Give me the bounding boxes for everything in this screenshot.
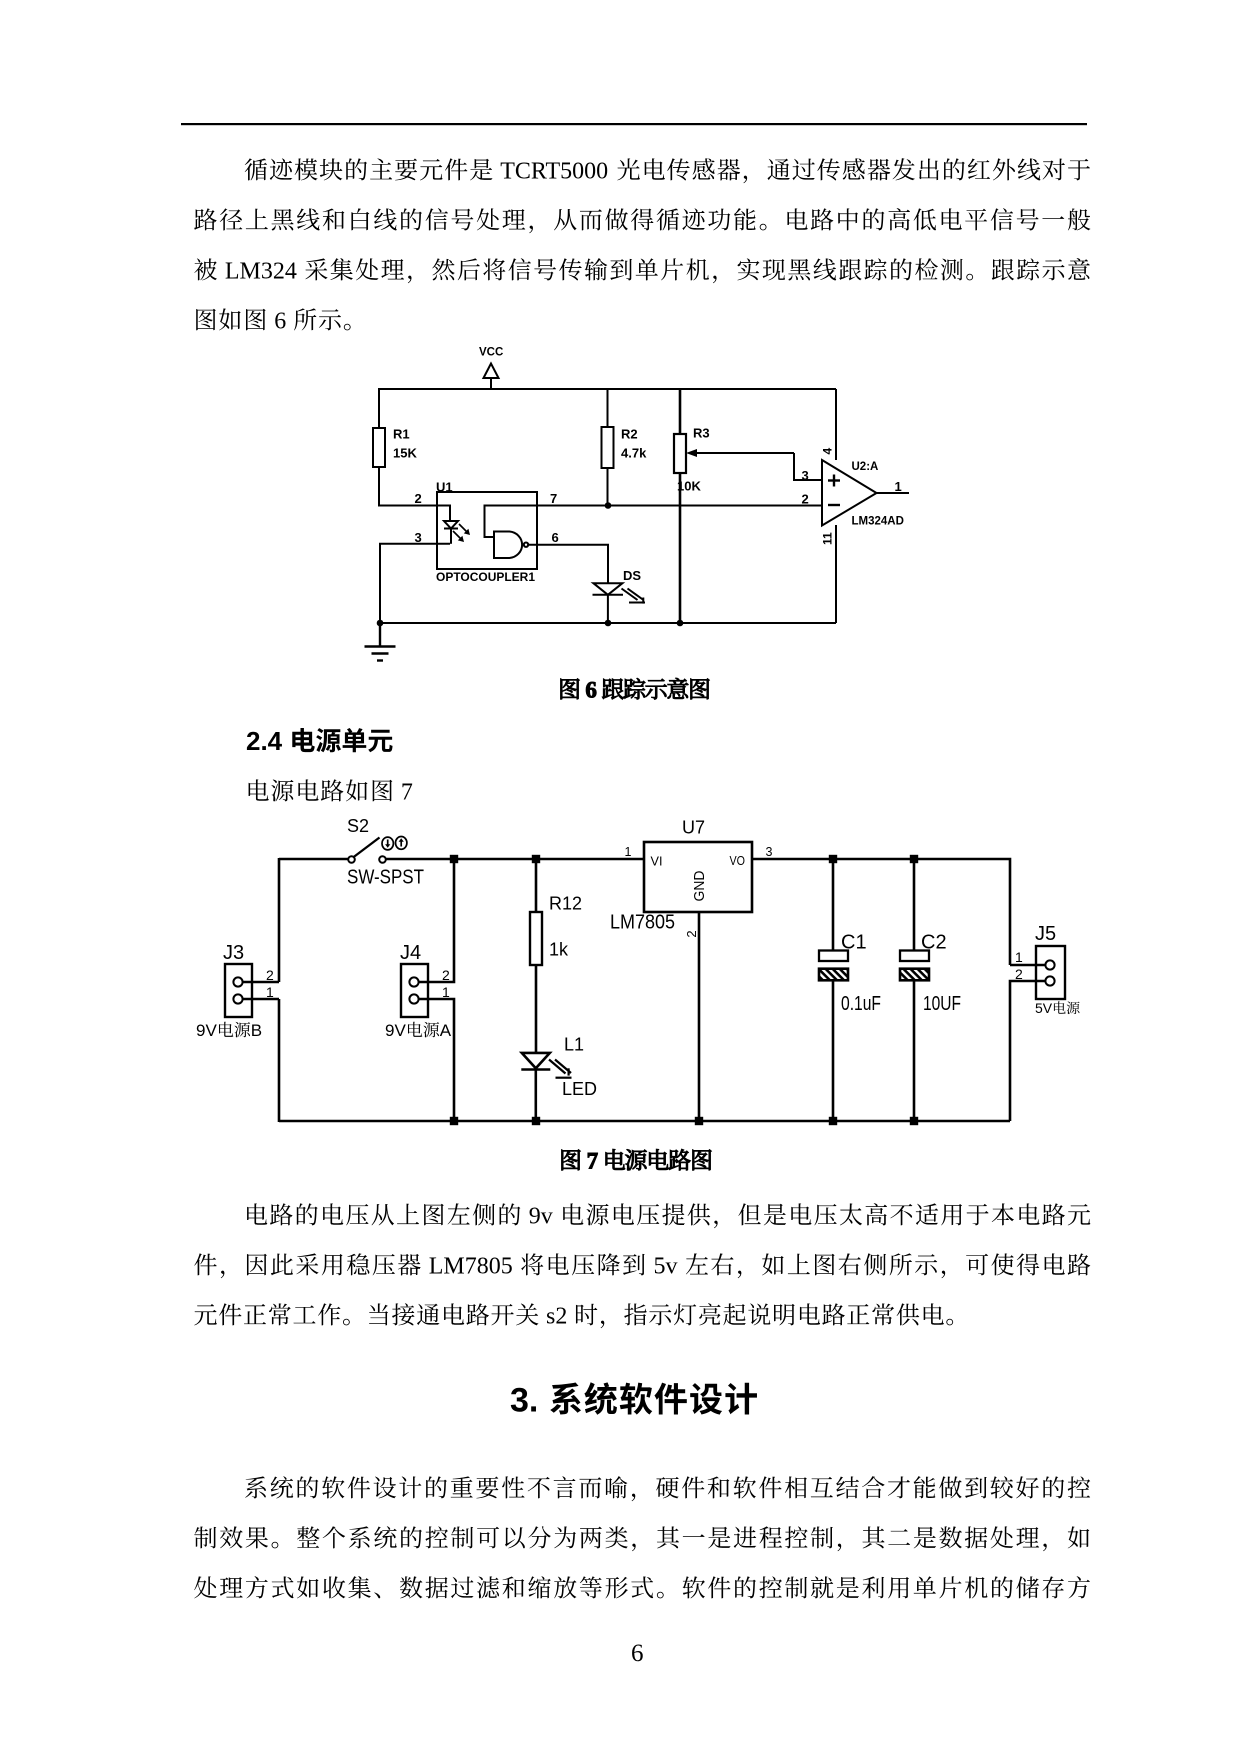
- junction L1 bottom: [532, 1117, 540, 1125]
- op-amp minus sign: [828, 504, 840, 506]
- switch S2 contacts: [348, 856, 386, 863]
- svg-text:4: 4: [821, 448, 835, 455]
- svg-text:J3: J3: [223, 942, 244, 964]
- switch S2 lever: [353, 838, 380, 858]
- op-amp U2:A triangle: [822, 460, 877, 526]
- ground symbol: [365, 623, 396, 661]
- svg-text:6: 6: [274, 309, 286, 335]
- wire J5 pin1: [1010, 964, 1045, 967]
- regulator U7 box: [644, 842, 752, 912]
- connector J3: [225, 964, 252, 1017]
- svg-text:3: 3: [766, 845, 773, 859]
- U1 NAND input wire from pin7 net: [485, 506, 538, 538]
- svg-text:3: 3: [802, 468, 809, 483]
- wire J4 pin2: [419, 860, 454, 982]
- LED L1: [521, 1053, 550, 1122]
- svg-text:5v: 5v: [654, 1254, 678, 1280]
- svg-text:6: 6: [552, 530, 559, 545]
- VCC power symbol: [484, 364, 499, 390]
- svg-text:C2: C2: [921, 931, 947, 953]
- wire pin2 minus input: [680, 505, 822, 507]
- wire top rail left of switch: [279, 858, 348, 861]
- wire top rail switch to U7: [386, 858, 644, 861]
- svg-text:7: 7: [587, 1149, 599, 1174]
- svg-text:2: 2: [266, 967, 274, 983]
- wire top rail U7 to right corner: [752, 859, 1010, 965]
- svg-text:2: 2: [802, 492, 809, 507]
- U1 internal LED: [437, 506, 458, 544]
- wire R1 bottom to pin2: [379, 467, 437, 506]
- svg-text:J4: J4: [400, 942, 421, 964]
- wire pin 7 net: [537, 505, 822, 507]
- wire bottom rail: [279, 1120, 1010, 1123]
- svg-text:1: 1: [1015, 949, 1023, 965]
- junction bottom left: [377, 620, 384, 627]
- junction R3 bottom: [677, 620, 684, 627]
- svg-text:2: 2: [415, 491, 422, 506]
- wire J3 pin1: [243, 998, 279, 1001]
- junction J4 bottom: [450, 1117, 458, 1125]
- svg-text:9V: 9V: [385, 1021, 406, 1040]
- wire top rail: [379, 388, 836, 390]
- capacitor C2: [900, 859, 929, 1122]
- label J5 name 5V power: [1035, 1000, 1080, 1016]
- wire J3 pin2: [243, 981, 279, 984]
- wire pin3 to ground column: [380, 544, 450, 623]
- resistor R12: [530, 859, 542, 1053]
- svg-text:7: 7: [550, 491, 557, 506]
- svg-text:U2:A: U2:A: [852, 461, 879, 473]
- svg-text:J5: J5: [1035, 923, 1056, 945]
- svg-text:LM7805: LM7805: [610, 912, 675, 934]
- DS emission arrows: [622, 589, 646, 604]
- switch S2 key badge: [382, 837, 407, 850]
- svg-text:R3: R3: [693, 426, 710, 441]
- wire output pin1: [877, 492, 910, 494]
- svg-text:4.7k: 4.7k: [621, 446, 647, 461]
- svg-text:1k: 1k: [549, 940, 569, 960]
- svg-text:A: A: [440, 1021, 452, 1040]
- svg-text:TCRT5000: TCRT5000: [500, 159, 608, 185]
- capacitor C1: [819, 859, 848, 1122]
- svg-text:10UF: 10UF: [923, 993, 961, 1015]
- svg-text:3: 3: [415, 530, 422, 545]
- svg-text:LED: LED: [562, 1079, 597, 1099]
- label J3 name 9V power B: [196, 1021, 262, 1040]
- svg-text:6: 6: [631, 1640, 644, 1667]
- svg-text:1: 1: [895, 479, 902, 494]
- junction C2 bottom: [910, 1117, 918, 1125]
- svg-text:U7: U7: [682, 818, 705, 838]
- svg-text:1: 1: [625, 845, 632, 859]
- svg-text:5V: 5V: [1035, 1000, 1053, 1016]
- svg-text:15K: 15K: [393, 446, 417, 461]
- svg-text:1: 1: [442, 984, 450, 1000]
- svg-text:6: 6: [585, 678, 597, 703]
- U1 LED emission arrows: [453, 524, 470, 542]
- wire U7 pin2 GND: [698, 912, 701, 1122]
- U1 internal NAND gate: [494, 532, 528, 559]
- svg-text:11: 11: [821, 532, 835, 545]
- svg-text:10K: 10K: [677, 479, 701, 494]
- wire J3 column up: [278, 858, 281, 982]
- connector J4: [401, 964, 428, 1017]
- L1 emission arrows: [549, 1060, 572, 1078]
- svg-text:2: 2: [1015, 966, 1023, 982]
- svg-text:B: B: [251, 1021, 262, 1040]
- junction C2 top: [910, 855, 918, 863]
- svg-text:L1: L1: [564, 1035, 584, 1055]
- svg-text:LM324AD: LM324AD: [852, 516, 904, 528]
- svg-text:VI: VI: [651, 854, 663, 869]
- svg-text:2.4: 2.4: [246, 726, 283, 756]
- junction C1 bottom: [829, 1117, 837, 1125]
- svg-text:VO: VO: [730, 853, 746, 868]
- wire left vertical upper: [378, 388, 380, 428]
- resistor R2: [602, 389, 614, 506]
- junction J4 top: [450, 855, 458, 863]
- wire bottom rail: [380, 622, 836, 624]
- svg-text:R12: R12: [549, 894, 582, 914]
- junction DS bottom: [605, 620, 612, 627]
- svg-text:DS: DS: [623, 568, 641, 583]
- svg-text:7: 7: [401, 780, 413, 806]
- svg-text:GND: GND: [691, 870, 708, 901]
- svg-text:2: 2: [684, 930, 699, 937]
- junction U7 GND bottom: [695, 1117, 703, 1125]
- connector J5: [1036, 946, 1065, 999]
- svg-text:S2: S2: [347, 816, 369, 836]
- R3 wiper arrow to op-amp: [686, 449, 822, 480]
- svg-text:U1: U1: [436, 480, 453, 495]
- svg-text:3.: 3.: [510, 1382, 538, 1420]
- label J4 name 9V power A: [385, 1021, 452, 1040]
- svg-text:0.1uF: 0.1uF: [841, 993, 881, 1015]
- junction C1 top: [829, 855, 837, 863]
- junction R12 top: [532, 855, 540, 863]
- op-amp plus sign: [828, 475, 840, 487]
- potentiometer R3: [674, 389, 686, 623]
- svg-text:9v: 9v: [529, 1204, 553, 1230]
- resistor R1: [373, 428, 385, 467]
- wire J4 pin1: [419, 999, 454, 1121]
- wire J5 pin2: [1010, 981, 1045, 1121]
- svg-text:OPTOCOUPLER1: OPTOCOUPLER1: [436, 570, 535, 584]
- svg-text:s2: s2: [546, 1304, 567, 1330]
- svg-text:VCC: VCC: [479, 347, 503, 359]
- svg-text:2: 2: [442, 967, 450, 983]
- wire J3 column down: [278, 999, 281, 1122]
- op-amp power vertical: [835, 389, 837, 460]
- svg-text:R1: R1: [393, 427, 410, 442]
- optocoupler U1 box: [437, 492, 537, 569]
- svg-text:R2: R2: [621, 427, 638, 442]
- junction pin7/R2: [605, 502, 612, 509]
- LED DS: [593, 583, 624, 623]
- svg-text:1: 1: [266, 984, 274, 1000]
- svg-text:LM324: LM324: [225, 259, 297, 285]
- svg-text:SW-SPST: SW-SPST: [347, 866, 424, 888]
- wire pin 6 to DS: [528, 545, 608, 584]
- svg-text:C1: C1: [841, 931, 867, 953]
- svg-text:9V: 9V: [196, 1021, 217, 1040]
- header rule: [181, 123, 1087, 125]
- svg-text:LM7805: LM7805: [429, 1254, 513, 1280]
